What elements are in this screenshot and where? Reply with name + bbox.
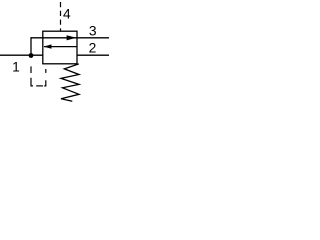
wire riser from junction [30, 38, 33, 55]
pilot line drain dash 5 [45, 69, 47, 73]
svg-text:2: 2 [89, 40, 97, 55]
arrow left shaft [44, 46, 77, 48]
pilot line drain dash 3 [36, 85, 43, 87]
arrow right (flow direction) [67, 35, 77, 40]
valve body V1 [43, 31, 77, 64]
spring [61, 64, 79, 101]
arrow left head [44, 44, 52, 48]
pilot line drain (dashed U) dash 1 [30, 66, 32, 73]
wire flow path to port 3 [31, 37, 109, 39]
svg-text:4: 4 [63, 7, 71, 22]
wire port 2 [77, 54, 109, 56]
pilot line drain dash 4 (corner) [44, 80, 46, 86]
pilot line drain dash 2 (corner) [31, 78, 33, 86]
wire port 1 [0, 54, 43, 56]
pilot line port 4 (dashed) [60, 2, 62, 31]
svg-text:1: 1 [12, 60, 20, 75]
background [0, 0, 109, 103]
svg-text:3: 3 [89, 24, 97, 39]
node junction dot [29, 53, 34, 58]
